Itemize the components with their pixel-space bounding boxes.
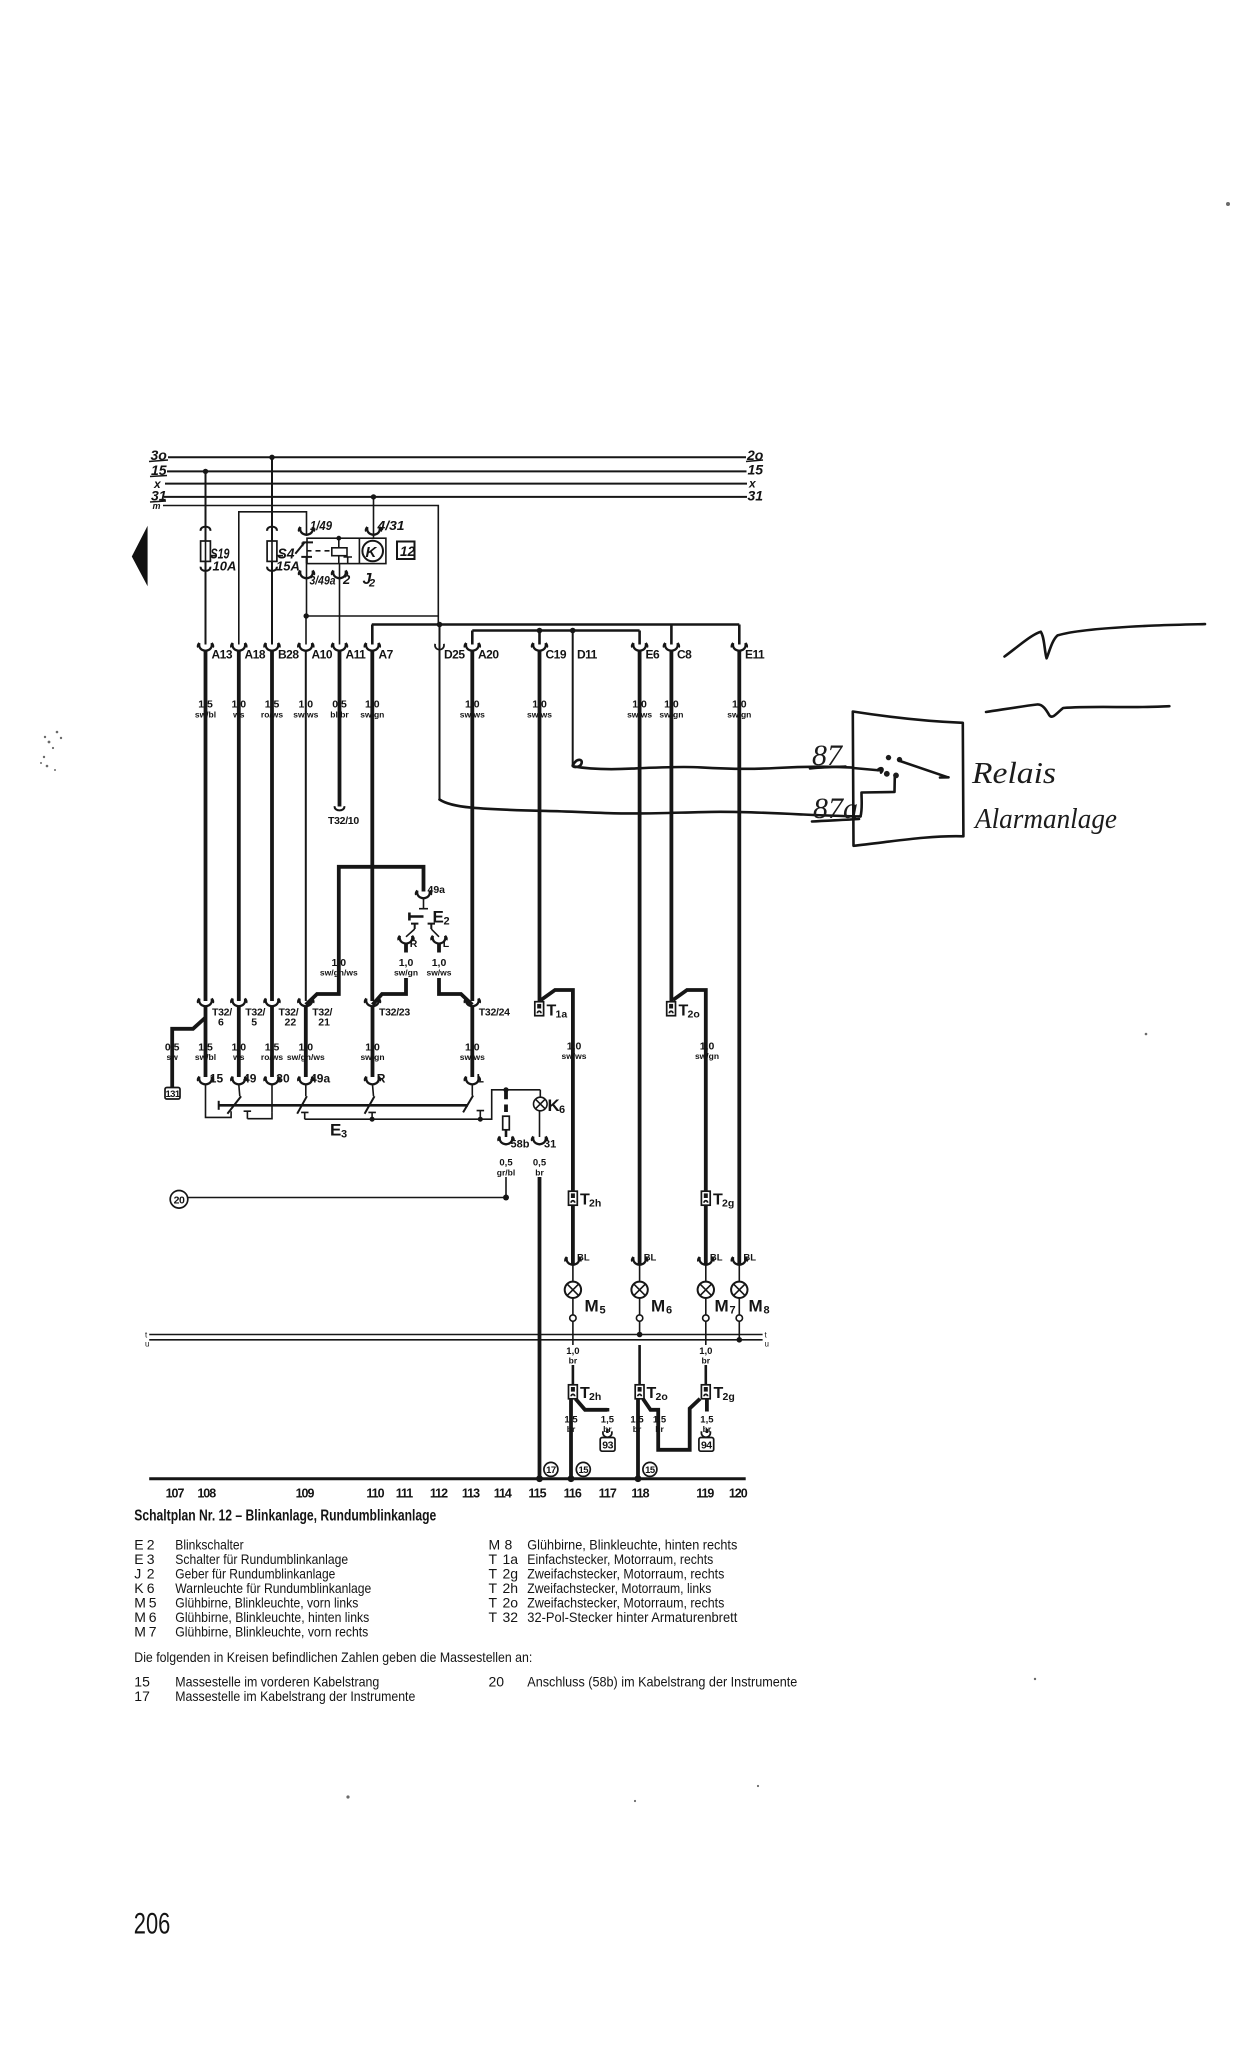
svg-text:D11: D11 [577,648,598,662]
lamp M7 [698,1282,736,1317]
label S4 15A [276,546,300,574]
terminal BL (M8) [732,1253,757,1282]
lamp M6 lower terminal [636,1298,642,1335]
junction dot 17 [536,1475,543,1482]
junction dot C19 [537,628,543,634]
wire T2h to ground 93 [576,1399,608,1412]
wire label 1,0 sw/ws (L) [426,957,451,978]
connector T2h lower [569,1385,602,1403]
wire terminal 49 into E3 [239,1085,240,1097]
wire label 1,5 ro/ws (T32/22) [261,1042,283,1063]
track number 115 [528,1487,546,1501]
wire lower line to E6 [638,631,641,645]
svg-text:C8: C8 [677,648,692,662]
legend T2o [489,1595,725,1611]
svg-text:sw/gn/ws: sw/gn/ws [320,968,358,978]
wire terminal 30 into E3 [271,1085,273,1113]
svg-text:R: R [410,938,418,950]
svg-text:117: 117 [599,1487,617,1501]
wire label 1,5 sw/bl (T32/6) [195,1042,216,1063]
wire E2 feed from T32/21 [306,867,424,1005]
connector T32/6 [198,999,232,1029]
svg-text:br: br [702,1356,711,1366]
wire T32/22 to terminal 30 [270,1007,274,1077]
wire (pen) D25 to relay terminal 87a [440,800,861,817]
wire 58b branch [504,1090,508,1112]
wire T2g to ground 94 [705,1399,709,1412]
svg-text:32-Pol-Stecker hinter Armature: 32-Pol-Stecker hinter Armaturenbrett [527,1609,737,1625]
net m outline (J2 frame) [163,506,438,625]
caption Schaltplan [134,1508,436,1525]
svg-text:sw/ws: sw/ws [561,1051,586,1061]
connector T2g upper [701,1191,734,1209]
wire E11 column [737,651,741,1265]
label 3/49a [310,572,352,588]
relay J2 coil [332,536,352,564]
svg-text:15: 15 [645,1465,656,1476]
wire T32/24 to terminal L [470,1007,474,1077]
terminal 49a (E2) [416,884,445,898]
label 4/31 [376,518,404,533]
svg-text:D25: D25 [444,648,465,662]
svg-text:Relais: Relais [971,755,1056,790]
svg-text:u: u [765,1340,769,1349]
scan smudges [40,202,1230,1802]
svg-text:gr/bl: gr/bl [497,1168,515,1178]
svg-text:BL: BL [644,1253,657,1264]
svg-text:Anschluss (58b) im Kabelstrang: Anschluss (58b) im Kabelstrang der Instr… [527,1674,797,1690]
lamp M5 [565,1282,606,1317]
switch E2 [406,899,439,937]
wire terminal 49a into E3 [305,1085,307,1097]
connector T1a [535,1002,568,1021]
svg-text:E11: E11 [745,648,765,662]
relay box (pen) [853,712,964,846]
bus label 30 right [746,447,764,463]
relay J2 contact [295,542,331,563]
svg-text:M: M [585,1297,599,1316]
svg-text:5: 5 [251,1017,257,1029]
lamp M5 lower terminal [570,1298,576,1345]
svg-text:E: E [330,1121,341,1140]
wire label 1,0 sw/ws (E6) [627,699,652,720]
svg-text:8: 8 [764,1305,770,1317]
svg-text:49a: 49a [428,884,446,896]
label E2 [433,908,450,928]
wire upper line to A7 [371,625,374,645]
switch E3 contact 49 [227,1096,241,1114]
svg-text:3/49a: 3/49a [310,576,337,588]
bus label 30 left [149,447,168,463]
page number 206 [134,1908,171,1941]
svg-text:17: 17 [546,1465,556,1476]
junction dot D25 [437,622,443,628]
connector E11 [732,643,766,662]
wire T32/23 to terminal R [371,1007,375,1077]
svg-text:Glühbirne, Blinkleuchte, vorn: Glühbirne, Blinkleuchte, vorn rechts [175,1624,368,1640]
wire D25 stub [439,625,441,800]
note 15 [134,1674,379,1690]
wire label 1,5 sw/bl (A13) [195,699,216,720]
wire lower line to C19 [538,631,541,645]
bus 15 [167,470,747,472]
junction dot E3/R stub [370,1117,375,1122]
terminal 15 (E3) [198,1072,224,1086]
svg-text:2o: 2o [656,1391,668,1403]
svg-text:sw/gn/ws: sw/gn/ws [287,1052,325,1062]
legend K6 [134,1580,371,1596]
wire label 1,0 sw/gn (A7) [360,699,384,720]
svg-text:ws: ws [232,1052,245,1062]
wire C19 branch to T2h [541,990,573,1191]
distribution line lower (left turn) [472,629,639,632]
bus label 31 right [748,488,764,504]
svg-text:br: br [569,1356,578,1366]
terminal L (E3) [465,1072,484,1086]
terminal BL (M7) [698,1253,723,1282]
svg-text:Die folgenden in Kreisen befin: Die folgenden in Kreisen befindlichen Za… [134,1649,532,1665]
svg-text:93: 93 [602,1440,613,1452]
connector T32/10 [328,815,359,827]
svg-text:T: T [489,1609,498,1625]
svg-text:31: 31 [544,1139,556,1151]
svg-text:A13: A13 [212,648,233,662]
wire K6 ground to point 17 [538,1177,542,1479]
wire L to T32/24 [439,978,472,1005]
wire terminal 15 into E3 [206,1085,232,1118]
svg-text:112: 112 [430,1487,448,1501]
connector T32/22 [264,999,298,1029]
connector D25 [435,644,465,662]
rail u [145,1340,769,1349]
svg-text:20: 20 [174,1194,185,1206]
connector T32/23 [365,999,411,1019]
wire J2 terminal 1/49 to connector A18 [239,512,314,645]
svg-text:sw: sw [167,1052,179,1062]
wire (pen) D11 to relay terminal 87 [573,760,853,769]
wire label 1,5 br (T2o right) [653,1415,667,1435]
legend M8 [489,1537,738,1553]
connector A7 [365,643,394,662]
wire A20 column [470,651,474,1001]
wire label 1,0 sw/gn/ws (E2 feed) [320,957,358,978]
svg-text:7: 7 [730,1305,736,1317]
svg-text:Alarmanlage: Alarmanlage [973,803,1117,835]
lamp M7 lower terminal [703,1298,709,1345]
svg-text:2h: 2h [589,1391,601,1403]
svg-text:3: 3 [341,1129,347,1141]
bus 30 [168,456,746,458]
svg-text:R: R [377,1072,386,1086]
wire T32/6 to terminal 15 [204,1007,208,1077]
ground bus bar [149,1477,746,1480]
svg-text:49a: 49a [310,1072,330,1086]
connector C8 [664,643,693,662]
wire T2o to ground 15 [636,1399,640,1479]
svg-text:15: 15 [748,462,764,478]
terminal 31 (K6) [532,1111,557,1151]
wire fuse S4 to connector B28 [267,561,277,644]
label (pen) 87a [812,792,859,825]
track number 118 [631,1487,649,1501]
junction dot D11 [570,628,576,634]
svg-text:1/49: 1/49 [310,518,333,533]
terminal 49a (E3) [298,1072,330,1086]
svg-text:T32/10: T32/10 [328,815,359,827]
wire label 1,0 sw/gn/ws (T32/21) [287,1042,325,1063]
lamp M6 [631,1282,672,1317]
wire upper line to E11 [738,625,741,645]
svg-text:17: 17 [134,1688,150,1704]
note Massestellen [134,1649,532,1665]
label (pen) Relais [971,755,1056,790]
wire label 1,5 ro/ws (B28) [261,699,283,720]
svg-text:94: 94 [701,1440,712,1452]
svg-text:br: br [655,1424,664,1434]
ground point 131 [165,1088,181,1100]
svg-text:131: 131 [165,1089,180,1100]
legend T32 [489,1609,738,1625]
track number 117 [599,1487,617,1501]
svg-text:M: M [715,1297,729,1316]
wire label 1,0 sw/gn (T32/23) [360,1042,384,1063]
wire stub 94 fork [706,1429,709,1433]
ground symbol 17 [544,1462,558,1476]
wire label 1,5 br (T2h left) [564,1415,578,1435]
relay J2 box [307,538,386,563]
relay contact K circle [362,541,383,562]
svg-text:L: L [443,938,450,950]
svg-text:2o: 2o [688,1009,700,1021]
legend T2g [489,1566,725,1582]
svg-text:M: M [651,1297,665,1316]
svg-text:br: br [567,1424,576,1434]
wire label 1,0 sw/ws (A20) [460,699,485,720]
svg-text:113: 113 [462,1487,480,1501]
switch E3 bar [219,1101,468,1110]
legend M7 [134,1624,368,1640]
connector A13 [198,643,233,662]
track number 114 [494,1487,512,1501]
wire label 0,5 gr/bl [497,1158,515,1178]
connector A20 [465,643,500,662]
svg-text:15: 15 [579,1465,590,1476]
svg-text:m: m [153,501,161,511]
svg-text:M: M [134,1624,146,1640]
svg-text:T32/24: T32/24 [479,1007,510,1019]
svg-text:20: 20 [489,1674,505,1690]
wire A13 column [204,651,208,1001]
wire T32/21 to terminal 49a [304,1007,308,1077]
svg-text:206: 206 [134,1908,171,1941]
rail t [145,1331,768,1340]
svg-text:107: 107 [166,1487,185,1501]
wire A7 column [370,651,374,1001]
wire T2o loop to T2g [643,1399,700,1450]
wire label 1,5 br (T2h right) [601,1415,615,1435]
svg-text:Massestelle im Kabelstrang der: Massestelle im Kabelstrang der Instrumen… [175,1688,415,1704]
track number 112 [430,1487,448,1501]
wire C8 column to T2o [670,651,674,1002]
bus label X right [748,477,757,491]
switch E3 contact 49a [297,1096,307,1114]
bus label m left [153,501,161,511]
wire J2 frame to A10 connector [305,616,307,645]
fuse S4 [267,541,283,561]
svg-text:C19: C19 [546,648,567,662]
junction dot 15 [568,1475,575,1482]
svg-text:M: M [749,1297,763,1316]
track number 107 [166,1487,185,1501]
svg-text:22: 22 [285,1017,297,1029]
svg-text:1a: 1a [556,1009,568,1021]
connector B28 [264,643,299,662]
legend E3 [134,1551,348,1567]
wire label 1,0 br (M5) [566,1346,579,1366]
svg-text:2: 2 [368,578,375,590]
junction dot bus31/4-31 [371,494,376,499]
wire label 1,5 br (T2g) [700,1415,714,1435]
svg-text:120: 120 [729,1487,748,1501]
node 20 circle [170,1191,188,1209]
wire T2h to M5 [571,1205,575,1265]
svg-text:15A: 15A [276,559,300,574]
svg-text:B28: B28 [278,648,299,662]
wire 58b to node 20 [188,1177,510,1201]
label (pen) Alarmanlage [973,803,1117,835]
svg-text:E: E [433,908,444,927]
pen stroke upper right 1 [1005,624,1206,658]
wire T32/5 to terminal 49 [237,1007,241,1077]
svg-text:30: 30 [276,1072,290,1086]
wire C8 branch to T2g [673,990,706,1191]
connector T2o lower [635,1385,668,1403]
wire J2 terminal 3/49a to frame [299,564,315,616]
label 1/49 [310,518,333,533]
bus 31 [164,496,747,498]
terminal BL (M5) [565,1253,590,1282]
ground point 94 [699,1431,714,1451]
track number 110 [366,1487,384,1501]
svg-text:sw/gn: sw/gn [360,1052,384,1062]
svg-text:L: L [477,1072,484,1086]
junction dot bus30/S4 [269,455,274,460]
svg-text:T32/23: T32/23 [379,1007,410,1019]
connector T32/5 [231,999,265,1029]
junction dot E3/L stub [478,1117,483,1122]
track number 119 [696,1487,714,1501]
label (pen) 87 [810,739,846,772]
svg-text:A18: A18 [245,648,266,662]
wire T2g to M7 [704,1205,708,1265]
wire label 1,0 sw/gn (E11) [727,699,751,720]
svg-text:111: 111 [396,1487,414,1501]
svg-text:116: 116 [564,1487,582,1501]
svg-text:BL: BL [577,1253,590,1264]
bus label 31 left [150,488,167,504]
wire C19 column to T1a [538,651,542,1002]
track number 108 [197,1487,216,1501]
connector D11 [577,648,598,662]
wire stub 93 fork [606,1429,609,1433]
svg-text:115: 115 [528,1487,546,1501]
svg-text:br: br [633,1424,642,1434]
warning lamp K6 [534,1090,548,1111]
svg-text:2g: 2g [723,1391,735,1403]
svg-text:sw/bl: sw/bl [195,1052,216,1062]
relay 87a lead (pen) [861,776,895,816]
legend M5 [134,1595,358,1611]
legend M6 [134,1609,369,1625]
svg-text:sw/gn: sw/gn [695,1051,719,1061]
svg-text:A10: A10 [312,648,333,662]
svg-text:114: 114 [494,1487,512,1501]
wire label 1,0 sw/gn (R) [394,957,418,978]
ground point 93 [600,1431,615,1451]
svg-text:15: 15 [134,1674,150,1690]
wire J2 terminal 2 to connector A11 [332,564,348,645]
resistor (series element 58b) [503,1116,510,1130]
wire D11 stub [572,631,574,767]
wire R to T32/23 [373,978,407,1005]
junction dot bus15/S19 [203,469,208,474]
svg-text:A7: A7 [379,648,394,662]
track number 113 [462,1487,480,1501]
legend T1a [489,1551,714,1567]
legend E2 [134,1537,244,1553]
switch E3 contact L [463,1096,473,1113]
label E3 [330,1121,347,1141]
terminal 58b [498,1130,530,1151]
note 17 [134,1688,415,1704]
wire label 1,0 ws (T32/5) [231,1042,246,1063]
label S19 10A [211,546,237,574]
bus label X left [153,477,162,491]
svg-text:br: br [535,1168,544,1178]
wire T2h to ground 15 [569,1399,573,1479]
svg-text:K: K [366,544,378,561]
wire bus15 to fuse S19 [201,471,211,541]
wire label 1,0 ws (A18) [231,699,246,720]
wire label 1,5 br (T2o left) [630,1415,644,1435]
track number 109 [296,1487,315,1501]
wire terminal R into E3 [373,1085,374,1097]
svg-text:t: t [765,1331,768,1340]
svg-text:6: 6 [559,1104,565,1116]
wire A10 column [305,651,307,1001]
wire M7 to T2g lower [704,1365,707,1385]
svg-text:58b: 58b [511,1139,530,1151]
wire label 1,0 sw/ws (T1a branch) [561,1041,586,1062]
wire terminal L into E3 [471,1085,473,1096]
track number 116 [564,1487,582,1501]
connector A10 [298,643,333,662]
svg-text:t: t [145,1331,148,1340]
svg-text:Massestelle im vorderen Kabels: Massestelle im vorderen Kabelstrang [175,1674,379,1690]
svg-text:BL: BL [710,1253,723,1264]
wire B28 column [270,651,274,1001]
connector T2o upper [667,1002,700,1021]
lamp M8 lower terminal [736,1298,742,1340]
connector A18 [231,643,266,662]
wire label 1,0 sw/gn (C8) [659,699,683,720]
svg-text:31: 31 [748,488,764,504]
wire label 1,0 br (M7) [699,1346,712,1366]
junction dot M8/rail u [737,1337,743,1343]
connector T2h upper [569,1191,602,1209]
wire label 0,5 br [533,1158,547,1178]
wire label 1,0 sw/gn (T2o branch) [695,1041,719,1062]
